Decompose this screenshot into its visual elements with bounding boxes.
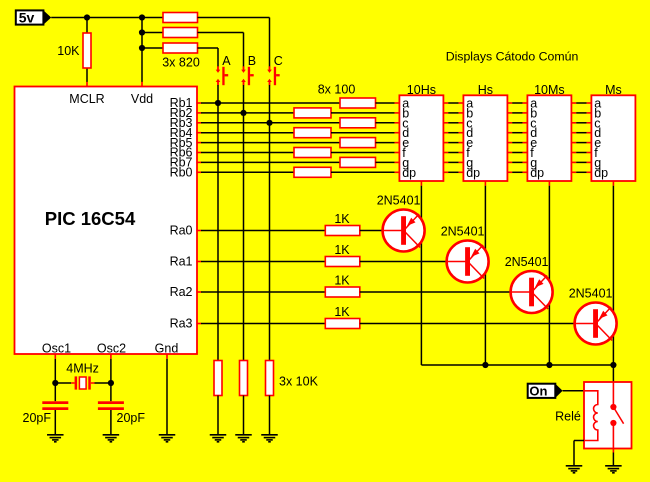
node bus/Q4/relay [610, 362, 616, 368]
pin stub Rb4 [196, 132, 201, 134]
svg-text:10Hs: 10Hs [407, 83, 436, 97]
pin stub 10Ms dp right [571, 171, 576, 173]
wire Hs-10Ms row e [512, 142, 522, 144]
wire Hs-10Ms row d [512, 132, 522, 134]
pin stub 10Hs e right [443, 142, 448, 144]
wire Hs-10Ms row c [512, 122, 522, 124]
ground pulldown B [235, 435, 252, 442]
svg-text:PIC 16C54: PIC 16C54 [45, 208, 136, 229]
pin stub 10Ms c left [523, 122, 528, 124]
wire Osc2 down [110, 359, 112, 401]
svg-text:dp: dp [594, 166, 608, 180]
resistor 10K pulldown A [214, 361, 222, 396]
svg-text:dp: dp [402, 166, 416, 180]
pin stub Hs e right [507, 142, 512, 144]
wire relay switch to ground [612, 453, 614, 467]
wire 10Hs-Hs row g [448, 161, 458, 163]
wire 100R Rb4 to display [331, 132, 395, 134]
svg-text:Ms: Ms [605, 83, 622, 97]
wire cathode Hs down [484, 186, 486, 365]
wire Rb6 to resistor [201, 152, 294, 154]
pin stub 10Ms g right [571, 161, 576, 163]
resistor 1K base Q3 [325, 287, 360, 297]
wire 10Ms-Ms row b [576, 112, 586, 114]
pin stub Ra0 [196, 230, 201, 232]
wire Rb3 to resistor [201, 122, 340, 124]
pin stub Rb0 [196, 171, 201, 173]
ground relay switch [605, 466, 622, 473]
wire 10Hs-Hs row a [448, 102, 458, 104]
wire 1K to base Q4 [360, 323, 596, 325]
pin stub Ms a left [587, 102, 592, 104]
node B/Rb2 [240, 110, 246, 116]
svg-text:dp: dp [530, 166, 544, 180]
pin stub 10Hs a left [395, 102, 400, 104]
wire Hs-10Ms row a [512, 102, 522, 104]
wire Ra2 to 1K [201, 291, 325, 293]
pushbutton C [267, 66, 280, 85]
pin stub Rb2 [196, 112, 201, 114]
pin stub MCLR [86, 82, 88, 87]
display Ms 7-segment common cathode [591, 95, 635, 181]
resistor 1K base Q2 [325, 257, 360, 267]
pushbutton B [241, 66, 254, 85]
node 5v/MCLR junction [84, 14, 90, 20]
pin stub 10Hs e left [395, 142, 400, 144]
display 10Hs 7-segment common cathode [399, 95, 443, 181]
wire 10Hs-Hs row c [448, 122, 458, 124]
wire pulldown B to ground [243, 396, 245, 436]
svg-text:1K: 1K [334, 274, 350, 288]
wire Rb7 to resistor [201, 161, 340, 163]
pin stub 10Ms dp left [523, 171, 528, 173]
wire Rb1 to resistor [201, 102, 340, 104]
wire Hs-10Ms row dp [512, 171, 522, 173]
wire R3 to column B [198, 32, 244, 34]
pin stub Gnd [166, 354, 168, 359]
pin stub Hs dp right [507, 171, 512, 173]
wire Ra0 to 1K [201, 230, 325, 232]
wire 10Ms-Ms row a [576, 102, 586, 104]
wire C2 to ground [110, 410, 112, 435]
pin stub Ms g left [587, 161, 592, 163]
pin stub 10Hs f left [395, 152, 400, 154]
pin stub Hs c right [507, 122, 512, 124]
capacitor C1 20pF [42, 401, 68, 410]
svg-text:1K: 1K [334, 243, 350, 257]
wire 10Ms-Ms row f [576, 152, 586, 154]
pin stub Ra1 [196, 261, 201, 263]
ground C1 [47, 435, 64, 442]
resistor R4 820 bottom [163, 43, 198, 53]
pin stub 10Hs d left [395, 132, 400, 134]
node 5v/Vdd junction [139, 14, 145, 20]
pin stub Ra3 [196, 323, 201, 325]
resistor 100R Rb6 [294, 148, 331, 158]
svg-text:Osc1: Osc1 [42, 342, 71, 356]
pin stub 10Hs c left [395, 122, 400, 124]
wire 10Hs-Hs row f [448, 152, 458, 154]
wire R4 to column A [198, 47, 219, 49]
wire Rb5 to resistor [201, 142, 340, 144]
relay RL1 [584, 382, 632, 453]
resistor 1K base Q1 [325, 226, 360, 236]
wire to crystal left [55, 382, 71, 384]
pin stub Rb5 [196, 142, 201, 144]
resistor 100R Rb7 [340, 157, 376, 167]
pin stub cathode Ms [612, 181, 614, 186]
wire relay coil out [574, 440, 584, 442]
ground pulldown C [261, 435, 278, 442]
pin stub 10Ms a left [523, 102, 528, 104]
svg-text:dp: dp [466, 166, 480, 180]
pin stub 10Ms b left [523, 112, 528, 114]
wire 10Ms-Ms row e [576, 142, 586, 144]
wire 1K to base Q3 [360, 291, 532, 293]
svg-text:2N5401: 2N5401 [569, 287, 613, 301]
pin stub Hs a right [507, 102, 512, 104]
svg-text:C: C [274, 54, 283, 68]
pin stub 10Ms b right [571, 112, 576, 114]
pin stub Rb3 [196, 122, 201, 124]
pin stub 10Ms f right [571, 152, 576, 154]
pin stub Ms dp left [587, 171, 592, 173]
pin stub cathode 10Hs [420, 181, 422, 186]
pin stub Hs c left [459, 122, 464, 124]
pin stub Hs d right [507, 132, 512, 134]
wire Hs-10Ms row b [512, 112, 522, 114]
wire 10Ms-Ms row d [576, 132, 586, 134]
pin stub Hs b right [507, 112, 512, 114]
wire pulldown C to ground [269, 396, 271, 436]
pin stub 10Ms e right [571, 142, 576, 144]
pin stub 10Hs a right [443, 102, 448, 104]
svg-text:1K: 1K [334, 212, 350, 226]
svg-text:1K: 1K [334, 305, 350, 319]
svg-text:B: B [248, 54, 256, 68]
wire column A down to pulldown [217, 85, 219, 361]
wire 100R Rb3 to display [376, 122, 395, 124]
svg-text:Displays Cátodo Común: Displays Cátodo Común [446, 49, 579, 63]
wire pulldown A to ground [217, 396, 219, 436]
pin stub 10Ms f left [523, 152, 528, 154]
svg-text:3x 820: 3x 820 [162, 56, 200, 70]
svg-text:Gnd: Gnd [155, 342, 179, 356]
resistor 10K pulldown B [240, 361, 248, 396]
pin stub 10Hs dp right [443, 171, 448, 173]
pin stub Ms e left [587, 142, 592, 144]
wire Osc1 down [54, 359, 56, 401]
svg-text:8x 100: 8x 100 [318, 83, 356, 97]
wire Ra3 to 1K [201, 323, 325, 325]
flag On [528, 383, 563, 398]
pin stub Hs f left [459, 152, 464, 154]
resistor 100R Rb0 [294, 167, 331, 177]
wire Hs-10Ms row g [512, 161, 522, 163]
resistor 10K pulldown C [266, 361, 274, 396]
pin stub Hs d left [459, 132, 464, 134]
power flag 5v [16, 10, 51, 26]
wire R2 to column C [198, 17, 270, 19]
node Osc1/crystal [52, 380, 58, 386]
resistor 100R Rb5 [340, 138, 376, 148]
node A/Rb1 [215, 100, 221, 106]
wire down to button C [269, 18, 271, 67]
svg-text:Rb0: Rb0 [170, 166, 193, 180]
pin stub 10Hs g right [443, 161, 448, 163]
wire down to button B [243, 33, 245, 67]
wire 10Hs-Hs row b [448, 112, 458, 114]
pin stub 10Ms g left [523, 161, 528, 163]
IC U1 PIC 16C54 [15, 87, 198, 355]
wire column B down to pulldown [243, 85, 245, 361]
resistor R2 820 top [163, 13, 198, 23]
wire crystal right [95, 382, 111, 384]
wire 100R Rb6 to display [331, 152, 395, 154]
wire 10Ms-Ms row g [576, 161, 586, 163]
wire cathode 10Hs down [420, 186, 422, 365]
pin stub Rb7 [196, 161, 201, 163]
transistor Q1 2N5401 (PNP) [383, 210, 425, 252]
pin stub cathode Hs [484, 181, 486, 186]
wire column C down to pulldown [269, 85, 271, 361]
wire 5v rail [51, 17, 163, 19]
node 820 row2 tap [139, 29, 145, 35]
svg-text:On: On [529, 383, 547, 398]
transistor Q4 2N5401 (PNP) [575, 303, 617, 345]
svg-text:MCLR: MCLR [69, 92, 104, 106]
wire 10Ms-Ms row dp [576, 171, 586, 173]
pin stub 10Ms d left [523, 132, 528, 134]
node C/Rb3 [266, 120, 272, 126]
pin stub 10Hs dp left [395, 171, 400, 173]
transistor Q3 2N5401 (PNP) [511, 271, 553, 313]
svg-text:Osc2: Osc2 [97, 342, 126, 356]
wire C1 to ground [54, 410, 56, 435]
resistor 100R Rb4 [294, 128, 331, 138]
pin stub Osc1 [54, 354, 56, 359]
pin stub Ra2 [196, 291, 201, 293]
wire 10Hs-Hs row d [448, 132, 458, 134]
wire Ra1 to 1K [201, 261, 325, 263]
svg-text:10Ms: 10Ms [534, 83, 565, 97]
pin stub 10Hs d right [443, 132, 448, 134]
pin stub Ms b left [587, 112, 592, 114]
wire cathode Ms down [612, 186, 614, 382]
svg-text:10K: 10K [57, 44, 80, 58]
pin stub cathode 10Ms [548, 181, 550, 186]
pin stub 10Hs g left [395, 161, 400, 163]
wire MCLR pull-up column [86, 18, 88, 83]
ground pulldown A [210, 435, 227, 442]
wire Rb2 to resistor [201, 112, 294, 114]
wire 10Ms-Ms row c [576, 122, 586, 124]
svg-text:Ra1: Ra1 [170, 255, 193, 269]
pushbutton A [216, 66, 229, 85]
pin stub Hs dp left [459, 171, 464, 173]
wire tap to R4 [142, 47, 163, 49]
ground C2 [103, 435, 120, 442]
pin stub Hs e left [459, 142, 464, 144]
pin stub Ms c left [587, 122, 592, 124]
wire collector bus [421, 364, 613, 366]
svg-text:3x 10K: 3x 10K [279, 374, 319, 388]
pin stub 10Hs b right [443, 112, 448, 114]
resistor R3 820 middle [163, 28, 198, 38]
svg-text:Ra3: Ra3 [170, 317, 193, 331]
pin stub Vdd [141, 82, 143, 87]
pin stub Hs f right [507, 152, 512, 154]
wire down to button A [217, 48, 219, 67]
svg-text:2N5401: 2N5401 [505, 255, 549, 269]
svg-text:20pF: 20pF [23, 411, 52, 425]
svg-text:Hs: Hs [478, 83, 493, 97]
wire 100R Rb1 to display [376, 102, 395, 104]
pin stub Osc2 [110, 354, 112, 359]
display Hs 7-segment common cathode [463, 95, 507, 181]
wire 10Hs-Hs row e [448, 142, 458, 144]
pin stub Rb6 [196, 152, 201, 154]
pin stub Ms f left [587, 152, 592, 154]
node Osc2/crystal [108, 380, 114, 386]
pin stub 10Hs f right [443, 152, 448, 154]
wire 1K to base Q1 [360, 230, 404, 232]
ground Gnd pin [159, 435, 176, 442]
pin stub Hs b left [459, 112, 464, 114]
svg-text:4MHz: 4MHz [66, 362, 99, 376]
pin stub Hs g right [507, 161, 512, 163]
svg-text:Ra2: Ra2 [170, 285, 193, 299]
wire cathode 10Ms down [548, 186, 550, 365]
wire Hs-10Ms row f [512, 152, 522, 154]
node 820 row3 tap [139, 45, 145, 51]
pin stub Hs a left [459, 102, 464, 104]
resistor 1K base Q4 [325, 319, 360, 329]
svg-text:Vdd: Vdd [131, 92, 153, 106]
wire 100R Rb0 to display [331, 171, 395, 173]
svg-text:2N5401: 2N5401 [441, 225, 485, 239]
wire tap to R3 [142, 32, 163, 34]
wire Rb0 to resistor [201, 171, 294, 173]
resistor R1 10K MCLR pull-up [83, 33, 91, 68]
transistor Q2 2N5401 (PNP) [447, 241, 489, 283]
wire Gnd pin down [166, 359, 168, 435]
svg-text:Relé: Relé [555, 410, 581, 424]
pin stub 10Ms a right [571, 102, 576, 104]
wire 100R Rb5 to display [376, 142, 395, 144]
wire relay coil to ground [573, 441, 575, 467]
wire 100R Rb7 to display [376, 161, 395, 163]
wire Rb4 to resistor [201, 132, 294, 134]
pin stub 10Ms c right [571, 122, 576, 124]
wire Vdd column [141, 18, 143, 83]
pin stub Hs g left [459, 161, 464, 163]
svg-text:2N5401: 2N5401 [377, 194, 421, 208]
svg-text:5v: 5v [19, 10, 35, 26]
pin stub 10Hs c right [443, 122, 448, 124]
resistor 100R Rb2 [294, 108, 331, 118]
pin stub 10Ms d right [571, 132, 576, 134]
pin stub 10Hs b left [395, 112, 400, 114]
wire 1K to base Q2 [360, 261, 468, 263]
resistor 100R Rb1 [340, 98, 376, 108]
node bus/Q3 [546, 362, 552, 368]
pin stub 10Ms e left [523, 142, 528, 144]
pin stub Rb1 [196, 102, 201, 104]
svg-text:20pF: 20pF [117, 411, 146, 425]
crystal X1 4MHz [71, 376, 94, 389]
pin stub Ms d left [587, 132, 592, 134]
svg-text:Ra0: Ra0 [170, 224, 193, 238]
node bus/Q2 [482, 362, 488, 368]
svg-text:A: A [222, 54, 231, 68]
wire On to relay [563, 390, 584, 392]
resistor 100R Rb3 [340, 118, 376, 128]
capacitor C2 20pF [98, 401, 124, 410]
display 10Ms 7-segment common cathode [527, 95, 571, 181]
wire 100R Rb2 to display [331, 112, 395, 114]
wire 10Hs-Hs row dp [448, 171, 458, 173]
ground relay coil [566, 466, 583, 473]
